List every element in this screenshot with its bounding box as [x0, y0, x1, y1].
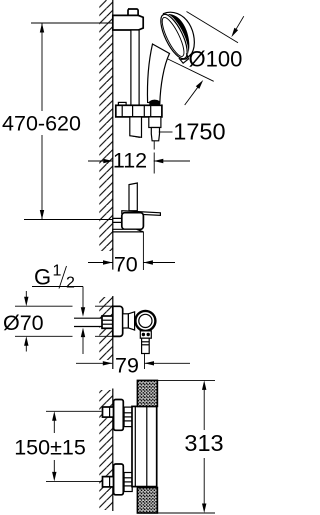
wall (middle section) — [99, 297, 113, 360]
dimension 70 — [142, 232, 144, 270]
bottom bracket / soap tray — [122, 211, 161, 216]
svg-text:G: G — [34, 265, 51, 290]
top rail bracket — [128, 9, 138, 15]
svg-text:Ø70: Ø70 — [3, 311, 44, 335]
temperature handle (knurled) — [137, 380, 157, 406]
dimension 150 plus/minus 15 — [46, 410, 102, 412]
wall (top section) — [99, 0, 113, 251]
shower rail (lower part) — [129, 183, 137, 211]
hand shower head — [155, 5, 203, 65]
lower connection union nut — [103, 477, 114, 487]
union nut in wall — [102, 316, 113, 328]
valve escutcheon — [113, 306, 123, 336]
svg-text:1750: 1750 — [173, 119, 225, 145]
svg-text:Ø100: Ø100 — [189, 47, 243, 72]
valve knob (circle) — [135, 311, 155, 331]
lower escutcheon — [114, 464, 124, 495]
svg-text:79: 79 — [115, 353, 139, 377]
svg-text:112: 112 — [113, 149, 147, 173]
supply pipe stub in wall — [74, 318, 113, 326]
svg-text:150±15: 150±15 — [14, 436, 86, 460]
valve connection hex — [123, 314, 129, 328]
thermostat body — [132, 406, 157, 486]
svg-text:2: 2 — [66, 275, 75, 292]
shower holder block on rail — [118, 102, 126, 105]
wall (bottom section) — [99, 390, 113, 510]
svg-text:313: 313 — [184, 430, 223, 456]
svg-text:1: 1 — [53, 263, 62, 280]
lower connection hex — [124, 473, 132, 492]
upper escutcheon — [114, 400, 124, 431]
rail glider sleeve — [130, 117, 142, 137]
hose nut under handle — [149, 100, 160, 106]
upper connection union nut — [103, 407, 114, 417]
valve outlet — [140, 331, 151, 338]
dimension diameter 100 — [187, 12, 239, 43]
dimension 1750 (hose length) — [159, 131, 173, 133]
svg-text:470-620: 470-620 — [2, 112, 81, 136]
shower rail (upper part) — [131, 30, 139, 137]
hose connector below holder — [149, 117, 161, 128]
dimension 470-620 — [31, 22, 113, 24]
hand shower handle — [147, 44, 169, 104]
dimension 112 — [88, 160, 113, 162]
dimension 313 — [157, 379, 215, 381]
volume handle (knurled) — [137, 488, 157, 514]
upper connection hex — [124, 407, 132, 427]
dimension 79 — [144, 354, 146, 370]
svg-text:70: 70 — [114, 253, 138, 277]
dimension diameter 70 — [15, 305, 73, 307]
